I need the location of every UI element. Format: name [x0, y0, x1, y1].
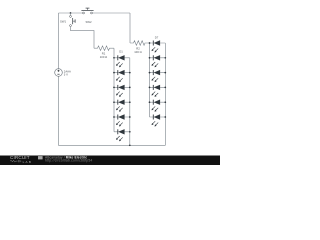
LED D7 — [150, 36, 166, 53]
wire right column right rail — [164, 43, 166, 145]
battery V1 2AAA 3V voltage source — [55, 69, 71, 77]
LED D4 — [114, 100, 130, 112]
switch SW2 pushbutton — [81, 8, 93, 24]
LED D8 — [150, 55, 166, 67]
LED D5 — [114, 114, 130, 126]
wire left column right rail — [129, 58, 131, 146]
node junction left column left rail y=72.6 — [113, 72, 115, 74]
node junction left column right rail y=102.2 — [129, 101, 131, 103]
node junction right column left rail y=72.6 — [149, 72, 151, 74]
svg-text:http://circuitlab.com/c66fp54: http://circuitlab.com/c66fp54 — [45, 159, 92, 163]
node junction right column right rail y=102.2 — [164, 101, 166, 103]
footer bar — [0, 156, 220, 166]
svg-text:D1: D1 — [119, 50, 123, 54]
LED D3 — [114, 85, 130, 97]
svg-text:R1: R1 — [102, 52, 106, 56]
CircuitLab logo — [10, 155, 43, 164]
svg-text:D7: D7 — [155, 36, 159, 40]
svg-text:100 Ω: 100 Ω — [100, 55, 107, 59]
resistor R2 100 Ohm — [130, 41, 150, 54]
LED D2 — [114, 70, 130, 82]
wire top rail from battery to SW2 — [59, 12, 83, 14]
resistor R1 100 Ohm — [94, 46, 114, 59]
wire battery top lead — [58, 13, 60, 69]
node junction right column left rail y=43.0 — [149, 42, 151, 44]
node junction right column left rail y=87.4 — [149, 87, 151, 89]
node junction left column right rail y=131.8 — [129, 131, 131, 133]
switch SW1 pushbutton — [60, 13, 75, 27]
node junction right column right rail y=72.6 — [164, 72, 166, 74]
LED D9 — [150, 70, 166, 82]
wire SW2 right terminal to drop — [93, 12, 130, 14]
node junction left column left rail y=57.8 — [113, 57, 115, 59]
LED D6 — [114, 129, 130, 141]
node junction right column right rail y=57.8 — [164, 57, 166, 59]
node junction left column right rail y=72.6 — [129, 72, 131, 74]
node junction left column left rail y=102.2 — [113, 101, 115, 103]
node junction top rail / SW1 branch — [70, 12, 72, 14]
node junction left column left rail y=87.4 — [113, 87, 115, 89]
wire R1 to left LED column — [113, 48, 115, 58]
LED D10 — [150, 85, 166, 97]
node junction left column left rail y=117.0 — [113, 116, 115, 118]
wire drop to R2 — [129, 13, 131, 43]
wire SW1 bottom to R1 drop — [71, 27, 95, 49]
node junction right column left rail y=57.8 — [149, 57, 151, 59]
svg-text:SW2: SW2 — [86, 20, 92, 24]
node junction left column right rail y=87.4 — [129, 87, 131, 89]
svg-text:100 Ω: 100 Ω — [134, 50, 141, 54]
node left column to bottom rail — [129, 144, 131, 146]
node junction left column right rail y=117.0 — [129, 116, 131, 118]
LED D11 — [150, 100, 166, 112]
wire right column left rail — [149, 43, 151, 117]
wire battery bottom lead to bottom rail — [59, 76, 166, 145]
svg-text:R2: R2 — [136, 46, 140, 50]
LED D12 — [150, 114, 166, 126]
LED D1 — [114, 50, 130, 68]
svg-text:3 V: 3 V — [64, 73, 68, 77]
node junction right column left rail y=102.2 — [149, 101, 151, 103]
footer credits — [45, 156, 92, 163]
node junction right column right rail y=117.0 — [164, 116, 166, 118]
wire left column left rail — [113, 58, 115, 132]
svg-text:SW1: SW1 — [60, 19, 66, 23]
svg-text:LAB: LAB — [23, 160, 33, 164]
node junction right column right rail y=87.4 — [164, 87, 166, 89]
